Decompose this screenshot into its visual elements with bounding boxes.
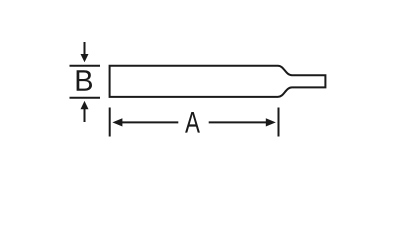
file body outline xyxy=(110,66,326,97)
dim A right arrow xyxy=(266,118,276,126)
dim B bottom extension line xyxy=(70,97,101,99)
label A xyxy=(185,112,200,133)
label B xyxy=(77,70,92,91)
dim B up arrow xyxy=(84,109,86,123)
dim B down arrow xyxy=(84,42,86,55)
dim A right extension line xyxy=(278,108,280,137)
dim A left arrow xyxy=(112,118,122,126)
dim A left extension line xyxy=(109,108,111,137)
dim B top extension line xyxy=(70,65,101,67)
